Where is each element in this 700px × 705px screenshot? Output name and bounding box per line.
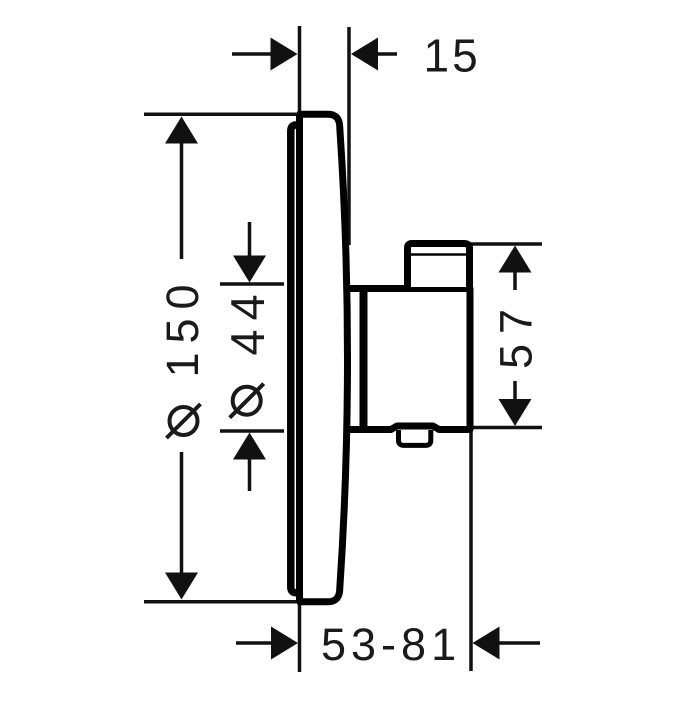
svg-text:150: 150: [157, 275, 208, 377]
svg-text:44: 44: [221, 285, 274, 355]
svg-text:57: 57: [491, 299, 542, 369]
svg-text:15: 15: [424, 30, 481, 82]
svg-text:53-81: 53-81: [321, 619, 461, 670]
